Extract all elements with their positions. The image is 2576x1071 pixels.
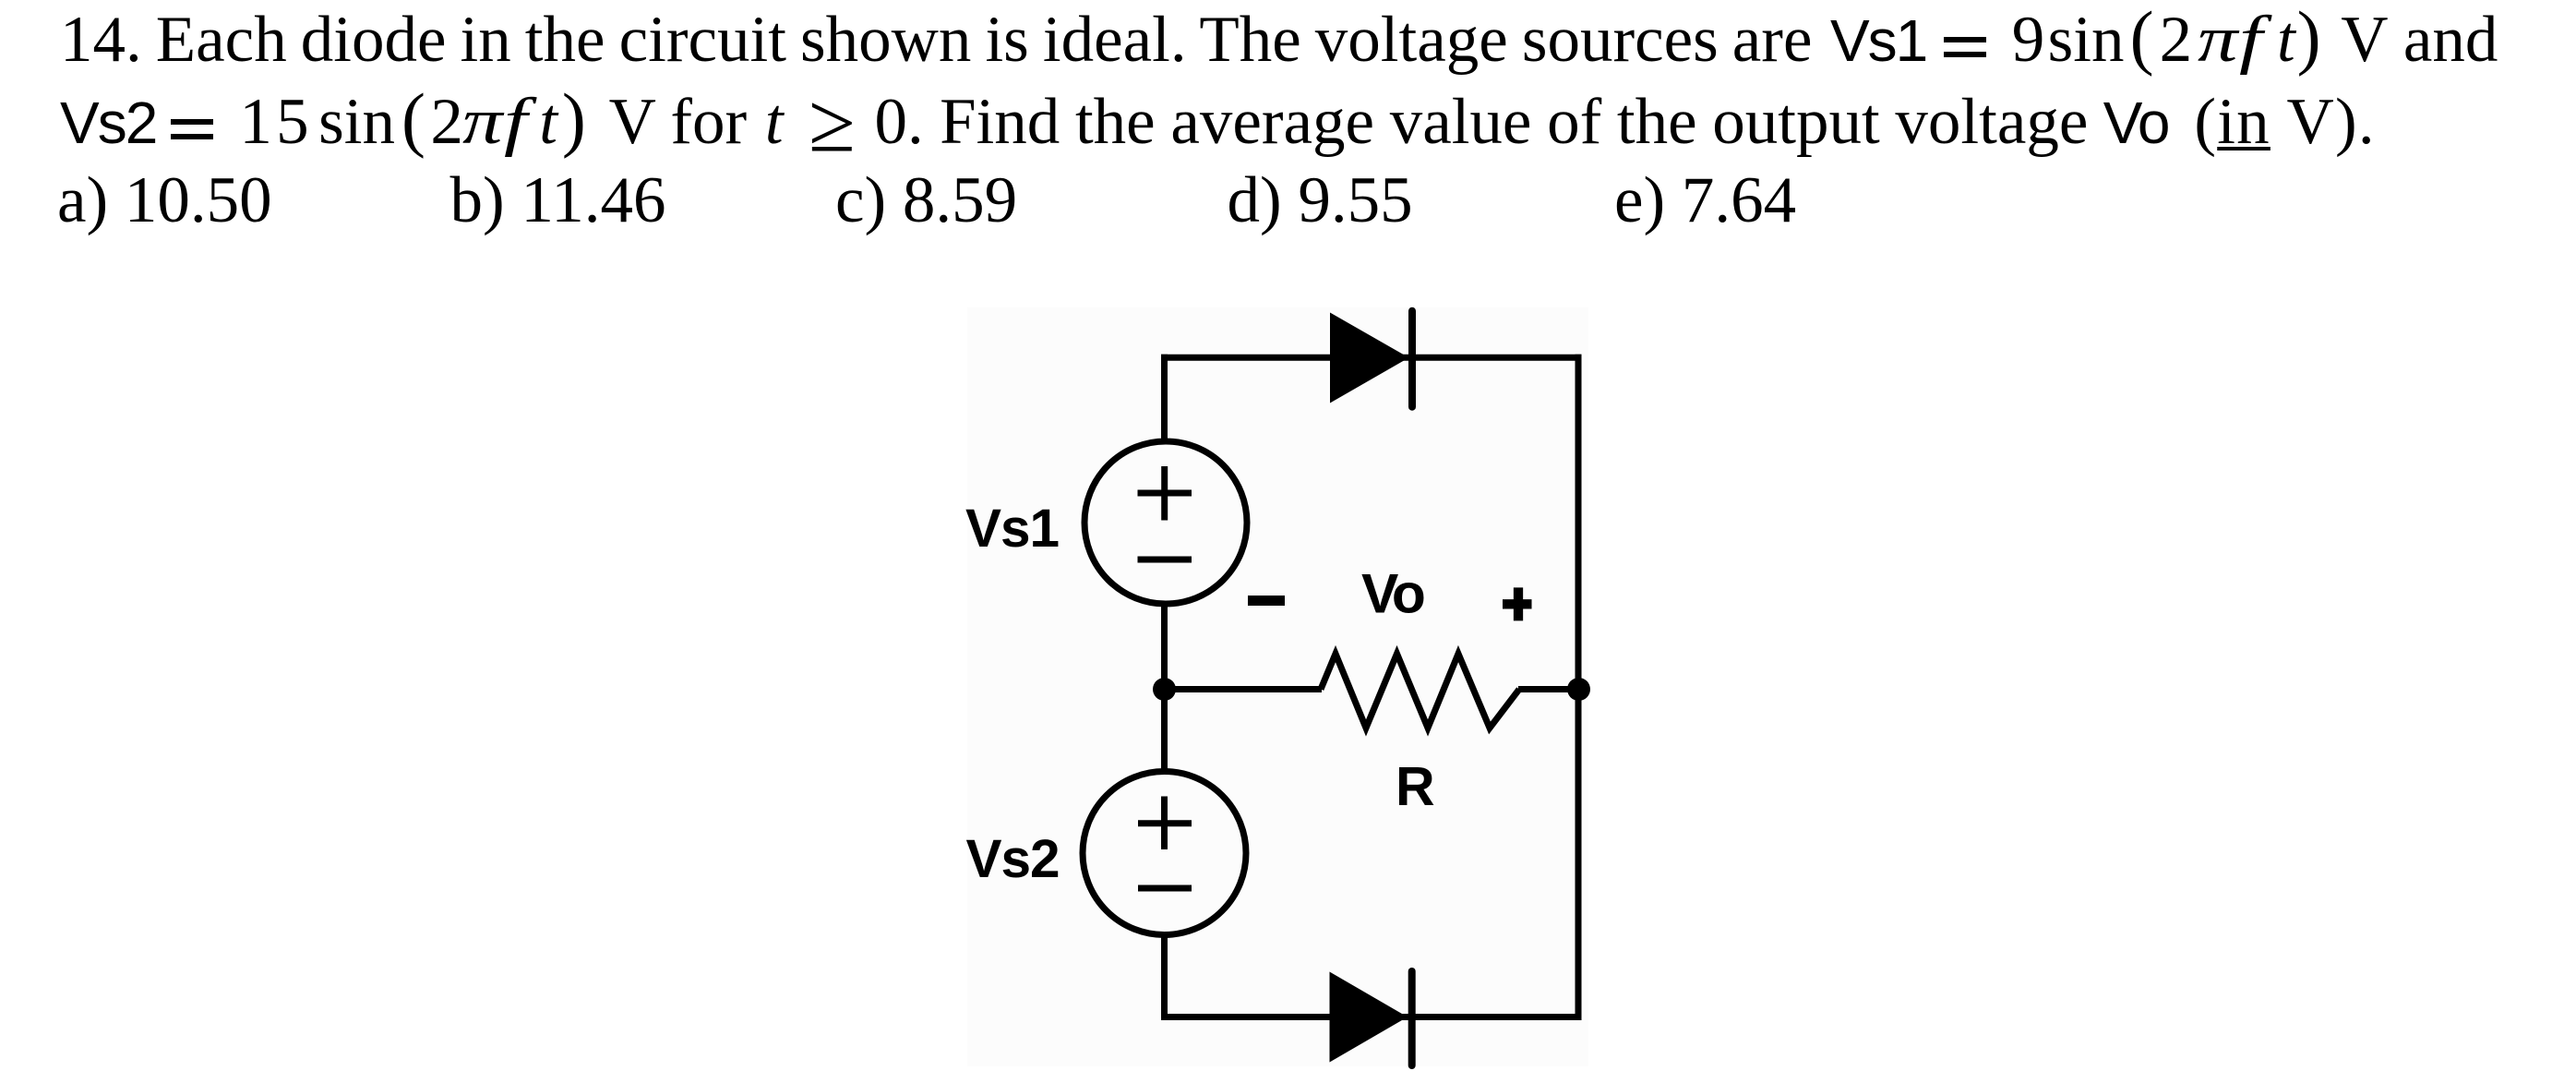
svg-text:R: R bbox=[1396, 756, 1435, 817]
wire: Vs1 bottom to node A and down to Vs2 top bbox=[1161, 605, 1168, 771]
svg-text:Vo: Vo bbox=[1361, 562, 1424, 625]
answer option d bbox=[1228, 164, 1413, 237]
diode D1 (top) bbox=[1330, 311, 1412, 407]
wire: top rail horizontal bbox=[1161, 355, 1582, 361]
problem text line 2 bbox=[60, 86, 2376, 160]
node A junction dot bbox=[1153, 678, 1176, 701]
diode D2 (bottom) bbox=[1330, 971, 1412, 1065]
wire: bottom-left vertical (bottom rail to Vs2 bottom) bbox=[1161, 934, 1168, 1020]
node B junction dot bbox=[1567, 678, 1590, 701]
wire: right rail vertical bbox=[1576, 355, 1582, 1020]
answer option c bbox=[835, 164, 1017, 237]
problem text line 1 bbox=[60, 4, 2498, 78]
voltage source Vs2 (circle with + and -) bbox=[1083, 772, 1246, 935]
answer option a bbox=[57, 164, 272, 237]
polarity label minus (left of Vo) bbox=[1248, 596, 1285, 606]
svg-text:Vs2: Vs2 bbox=[966, 829, 1060, 889]
svg-text:Vs1: Vs1 bbox=[965, 499, 1059, 559]
wire: top-left vertical (Vs1 top to top rail) bbox=[1161, 355, 1168, 441]
voltage source Vs1 (circle with + and -) bbox=[1084, 441, 1247, 604]
wire: node A to resistor left bbox=[1165, 686, 1323, 692]
polarity label plus (right of Vo) bbox=[1503, 587, 1532, 620]
wire: bottom rail horizontal bbox=[1161, 1014, 1582, 1020]
resistor R zigzag bbox=[1321, 654, 1519, 728]
answer option b bbox=[450, 164, 666, 237]
answer option e bbox=[1614, 164, 1796, 237]
wire: resistor right to node B bbox=[1518, 686, 1578, 692]
